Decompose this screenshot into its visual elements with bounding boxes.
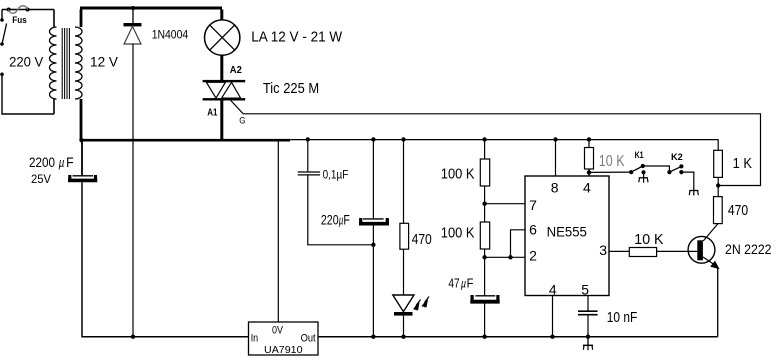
wire diode anode down to bottom rail <box>132 44 134 337</box>
switch in 220V line <box>0 10 6 46</box>
svg-text:10 nF: 10 nF <box>607 309 638 326</box>
node junction diode line / bottom rail <box>131 335 135 339</box>
wire 0,1uF down and right to 220uF line <box>308 176 374 245</box>
svg-text:2: 2 <box>529 248 537 264</box>
wire pin 8 to mid rail <box>553 137 557 176</box>
switch K1 <box>629 150 646 174</box>
wire top rail 12V <box>80 7 222 10</box>
resistor 470 (LED branch) <box>400 223 432 249</box>
node junction top rail / diode <box>131 6 135 10</box>
fuse Fus <box>7 6 30 26</box>
wire K1 to K2 <box>643 166 670 172</box>
wire pin 4 line to NE555 <box>588 172 590 176</box>
resistor 100K upper <box>441 159 490 186</box>
ground below K2 <box>689 191 698 196</box>
switch K2 <box>667 152 683 174</box>
wire LED to bottom rail <box>401 316 405 339</box>
svg-text:25V: 25V <box>31 172 51 186</box>
wire pin 3 to 10K <box>609 250 629 252</box>
svg-text:0V: 0V <box>272 324 284 336</box>
resistor 10K (base) <box>629 231 663 257</box>
wire emitter down to bottom rail <box>717 268 719 337</box>
ground below K1 <box>639 172 648 182</box>
svg-text:8: 8 <box>551 179 559 195</box>
svg-text:F: F <box>343 211 349 227</box>
node junction pin7 <box>482 202 486 206</box>
svg-text:Tic 225 M: Tic 225 M <box>263 81 319 97</box>
svg-text:µ: µ <box>59 155 65 170</box>
svg-text:7: 7 <box>529 197 537 213</box>
svg-text:A1: A1 <box>207 106 217 118</box>
wire pin 7 to NE555 <box>485 203 525 205</box>
wire mid rail thick part <box>80 139 290 142</box>
resistor 1K <box>714 139 752 177</box>
wire pin 6 link <box>508 230 525 260</box>
wire 100K lower to 47uF <box>484 249 486 295</box>
svg-text:In: In <box>251 333 259 345</box>
svg-text:F: F <box>66 154 74 170</box>
transformer core <box>62 28 69 99</box>
wire 47uF to bottom rail <box>482 303 486 339</box>
svg-text:0,1µF: 0,1µF <box>323 169 349 181</box>
capacitor 47uF <box>448 276 499 302</box>
svg-text:µ: µ <box>461 277 466 291</box>
wire pin4 node to K1 <box>589 171 631 173</box>
capacitor 10 nF <box>578 309 637 326</box>
wire 220uF down to bottom rail <box>372 226 374 337</box>
capacitor 220uF <box>321 137 389 227</box>
svg-text:5: 5 <box>581 282 589 298</box>
resistor 100K lower <box>441 222 490 249</box>
wire UA7910 0V pin up to mid rail <box>277 141 279 323</box>
regulator UA7910 <box>249 322 319 356</box>
capacitor 0,1uF <box>298 137 349 181</box>
svg-text:K2: K2 <box>671 152 683 162</box>
LED indicator <box>393 295 429 316</box>
wire 1K to 470 <box>716 177 720 196</box>
wire mid rail thin part <box>290 139 718 141</box>
svg-text:12 V: 12 V <box>90 54 119 70</box>
wire triac gate to right side <box>231 101 761 186</box>
svg-text:220 V: 220 V <box>9 54 44 70</box>
svg-text:UA7910: UA7910 <box>264 344 303 356</box>
wire top of 220V primary loop <box>2 9 54 11</box>
svg-text:2200: 2200 <box>29 154 55 170</box>
svg-text:F: F <box>467 276 474 291</box>
wire pin 2 to NE555 <box>485 256 525 258</box>
ground below bottom rail at 10nF <box>583 337 593 350</box>
svg-text:100 K: 100 K <box>441 166 475 182</box>
wire NE555 pin 4 bottom to rail <box>550 296 554 339</box>
capacitor 2200uF 25V <box>29 141 97 186</box>
wire NE555 pin 5 to 10nF <box>587 296 589 311</box>
diode 1N4004 <box>124 10 189 45</box>
svg-text:4: 4 <box>583 179 591 195</box>
svg-text:10 K: 10 K <box>634 231 663 248</box>
svg-text:220: 220 <box>321 211 339 227</box>
svg-text:4: 4 <box>549 282 557 298</box>
svg-text:A2: A2 <box>230 64 242 76</box>
wire 470 to LED <box>403 249 405 295</box>
svg-text:470: 470 <box>728 202 748 219</box>
svg-text:Fus: Fus <box>12 15 26 26</box>
wire K2 to ground <box>681 172 693 190</box>
svg-text:100 K: 100 K <box>441 225 475 241</box>
node junction 0,1uF / 220uF line <box>371 243 375 247</box>
resistor 10K (pin 4 pull-up) <box>585 137 626 176</box>
svg-text:6: 6 <box>529 221 537 237</box>
resistor 470 (right) <box>714 197 749 224</box>
svg-text:Out: Out <box>301 333 316 345</box>
wire mid rail to 100K upper <box>482 137 486 159</box>
svg-text:G: G <box>239 115 245 126</box>
transistor 2N 2222 <box>688 224 772 270</box>
svg-text:NE555: NE555 <box>547 223 587 239</box>
wire bottom of 220V primary loop <box>2 74 54 114</box>
svg-text:1N4004: 1N4004 <box>152 30 189 42</box>
svg-text:1 K: 1 K <box>733 155 752 172</box>
wire bottom right rail <box>318 336 718 338</box>
svg-text:3: 3 <box>599 242 607 258</box>
svg-text:LA 12 V - 21 W: LA 12 V - 21 W <box>251 30 342 46</box>
svg-text:2N 2222: 2N 2222 <box>725 241 772 257</box>
svg-text:10 K: 10 K <box>599 153 625 170</box>
wire 10nF to bottom rail <box>586 316 590 339</box>
node junction pin2 branch <box>482 255 486 259</box>
triac Tic 225 M <box>203 64 320 126</box>
wire 10K to base <box>657 250 698 252</box>
op IC NE555 <box>525 176 609 298</box>
wire 100K upper to 100K lower <box>484 186 486 222</box>
wire mid rail to resistor 470 (LED branch) <box>401 137 405 223</box>
wire lamp to triac <box>220 55 223 80</box>
svg-text:K1: K1 <box>635 150 644 160</box>
node 220V source terminals <box>0 54 44 76</box>
node junction 220uF / bottom rail <box>371 335 375 339</box>
wire triac A1 down to mid rail <box>220 101 223 140</box>
lamp LA 12 V - 21 W <box>205 10 343 56</box>
wire 2200uF down to bottom left rail <box>82 182 249 337</box>
svg-text:47: 47 <box>448 276 459 291</box>
transformer TR primary winding <box>50 10 57 115</box>
svg-text:470: 470 <box>412 231 432 248</box>
node junction transformer / mid rail <box>79 138 83 142</box>
transformer TR secondary winding <box>75 10 82 140</box>
